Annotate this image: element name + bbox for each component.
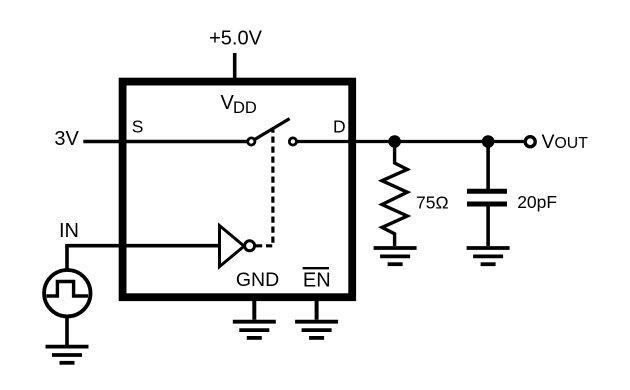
svg-text:GND: GND bbox=[236, 269, 279, 291]
svg-text:DD: DD bbox=[233, 99, 257, 117]
svg-text:IN: IN bbox=[59, 220, 79, 242]
svg-text:V: V bbox=[542, 131, 555, 153]
svg-text:EN: EN bbox=[303, 269, 331, 291]
svg-text:OUT: OUT bbox=[555, 135, 589, 152]
svg-text:S: S bbox=[132, 116, 144, 136]
svg-text:3V: 3V bbox=[54, 128, 79, 150]
svg-text:+5.0V: +5.0V bbox=[209, 27, 262, 49]
svg-text:D: D bbox=[333, 117, 346, 137]
svg-text:20pF: 20pF bbox=[517, 192, 557, 212]
svg-text:75Ω: 75Ω bbox=[416, 192, 449, 212]
